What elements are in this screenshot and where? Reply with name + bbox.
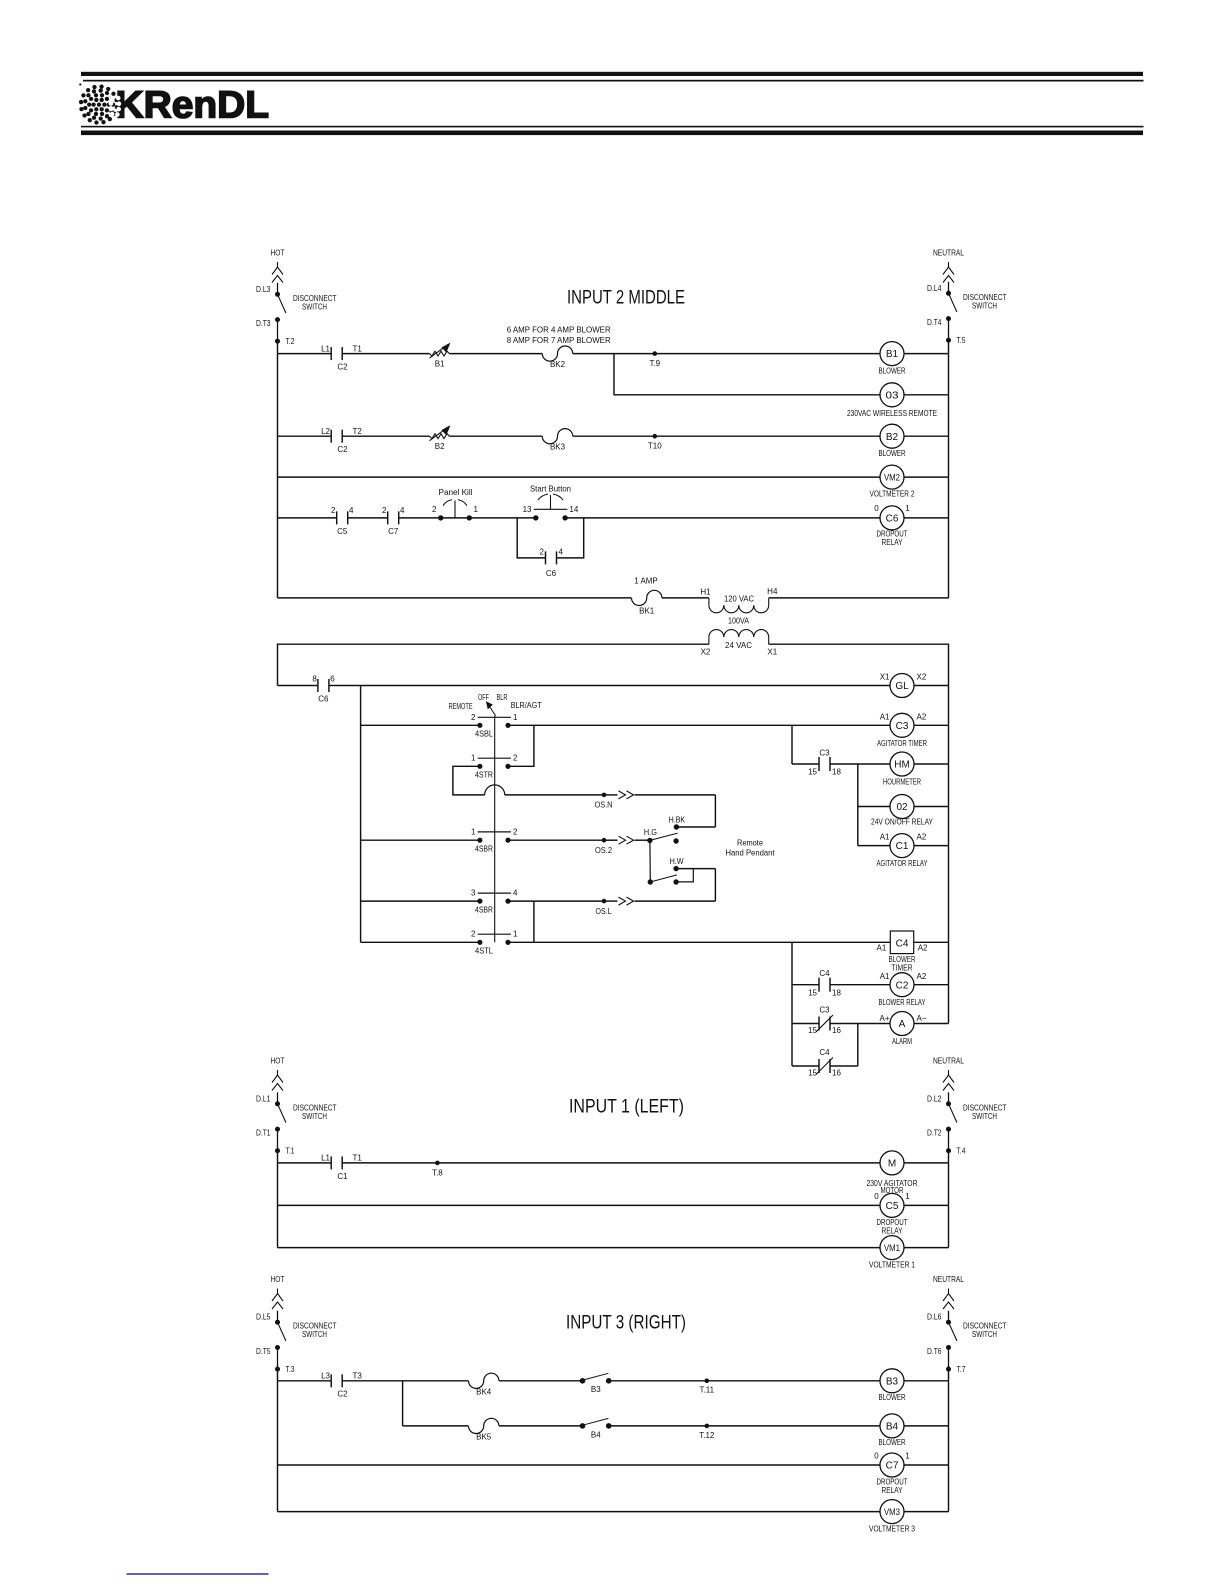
svg-text:BK2: BK2	[550, 360, 566, 369]
wire O2 rung	[858, 806, 890, 808]
svg-text:D.T5: D.T5	[256, 1347, 271, 1356]
wire B3 rung	[278, 1380, 882, 1382]
contact C2 (L2-T2) rung2	[321, 427, 362, 454]
svg-text:OS.2: OS.2	[595, 846, 613, 855]
svg-text:2: 2	[540, 548, 545, 557]
relay 0.3 230VAC wireless remote	[847, 383, 937, 418]
timer C4 blower timer	[877, 931, 929, 973]
svg-text:B2: B2	[435, 442, 445, 451]
svg-text:VOLTMETER 1: VOLTMETER 1	[869, 1260, 915, 1269]
wire HM drop rail	[857, 764, 859, 846]
wire 4SBR rung	[361, 839, 480, 841]
left rail (input 1)	[277, 1151, 279, 1248]
svg-text:M: M	[888, 1159, 896, 1170]
svg-text:SWITCH: SWITCH	[972, 1112, 997, 1121]
svg-text:VM1: VM1	[884, 1243, 900, 1254]
svg-text:15: 15	[808, 988, 817, 997]
svg-text:B1: B1	[435, 360, 445, 369]
note 6/8 AMP blower fusing	[507, 326, 611, 346]
svg-text:3: 3	[471, 889, 476, 898]
svg-text:4: 4	[559, 548, 564, 557]
wire C7 rung	[278, 1464, 882, 1466]
rotary contact 4SBL (2-1)	[471, 713, 518, 739]
wire rung1	[278, 353, 881, 355]
svg-text:D.L5: D.L5	[256, 1313, 271, 1322]
wire C5 to right rail	[904, 1204, 949, 1206]
blower motor B3	[879, 1369, 906, 1402]
svg-text:D.L4: D.L4	[927, 284, 942, 293]
disconnect switch D.L3/D.T3 with nodes T.2	[256, 283, 337, 346]
svg-text:AGITATOR TIMER: AGITATOR TIMER	[877, 739, 927, 748]
node NEUTRAL (input 2)	[933, 248, 964, 283]
svg-text:1: 1	[471, 827, 476, 836]
disconnect switch D.L1/D.T1 with node T.1	[256, 1092, 337, 1155]
svg-text:T1: T1	[353, 344, 363, 353]
wire A to right rail	[914, 1023, 949, 1025]
svg-text:BLOWER: BLOWER	[889, 955, 916, 964]
voltmeter VM1	[869, 1236, 915, 1270]
svg-text:D.T6: D.T6	[927, 1347, 942, 1356]
Krendl logo dotted globe	[79, 83, 119, 124]
svg-text:T.1: T.1	[286, 1147, 295, 1156]
svg-text:RELAY: RELAY	[882, 1226, 904, 1235]
svg-text:D.L3: D.L3	[256, 285, 271, 294]
svg-text:GL: GL	[895, 681, 909, 692]
wire rung2	[278, 435, 881, 437]
svg-text:INPUT 1 (LEFT): INPUT 1 (LEFT)	[569, 1096, 684, 1118]
svg-text:C1: C1	[896, 841, 909, 852]
svg-text:4STR: 4STR	[475, 771, 493, 780]
svg-text:T.5: T.5	[957, 336, 966, 345]
wire VM2 to right rail	[904, 476, 949, 478]
svg-text:BLR: BLR	[497, 693, 508, 702]
switch remote hand pendant (H.G/H.BK/H.W)	[644, 795, 775, 901]
breaker BK3	[542, 429, 572, 452]
wire C1 to right rail	[914, 845, 949, 847]
svg-text:B1: B1	[886, 349, 899, 360]
svg-text:D.T4: D.T4	[927, 318, 942, 327]
svg-text:T1: T1	[353, 1154, 363, 1163]
wire C6 coil to right rail	[904, 517, 949, 519]
svg-text:A2: A2	[918, 944, 928, 953]
Krendl logo white dots over K	[109, 96, 122, 117]
svg-text:C3: C3	[819, 748, 830, 757]
wire C2 to right rail	[914, 984, 949, 986]
svg-text:SWITCH: SWITCH	[972, 1330, 997, 1339]
svg-text:A2: A2	[917, 713, 927, 722]
contact C3 (15-18)	[808, 748, 841, 776]
svg-text:C4: C4	[819, 969, 830, 978]
relay coil C7 dropout relay	[874, 1451, 910, 1495]
svg-text:C2: C2	[337, 1390, 348, 1399]
svg-text:T.8: T.8	[432, 1168, 443, 1177]
disconnect switch D.L2/D.T2 with node T.4	[927, 1092, 1007, 1155]
svg-text:C5: C5	[886, 1201, 899, 1212]
svg-text:BLR/AGT: BLR/AGT	[511, 701, 542, 710]
svg-text:H4: H4	[767, 587, 778, 596]
rotary contact 4STL (2-1)	[471, 930, 518, 956]
title INPUT 1 (LEFT)	[569, 1096, 684, 1118]
node HOT (input 2)	[271, 248, 285, 283]
disconnect switch D.L6/D.T6 with node T.7	[927, 1311, 1007, 1374]
svg-text:HOT: HOT	[271, 248, 285, 258]
svg-text:BK5: BK5	[476, 1432, 492, 1441]
wire C6 seal-in branch	[517, 518, 584, 558]
svg-text:SWITCH: SWITCH	[302, 302, 327, 311]
svg-text:X1: X1	[767, 648, 777, 657]
svg-text:24V ON/OFF RELAY: 24V ON/OFF RELAY	[871, 818, 934, 827]
inner rail A	[360, 686, 362, 943]
rotary contact 4SBR (3-4)	[471, 889, 518, 915]
svg-text:1: 1	[471, 754, 476, 763]
blower motor B1	[879, 342, 906, 376]
svg-text:KRenDL: KRenDL	[116, 85, 270, 127]
svg-text:C6: C6	[886, 514, 899, 525]
svg-text:BLOWER: BLOWER	[879, 1393, 906, 1402]
svg-text:RELAY: RELAY	[882, 538, 904, 547]
relay coil C1 agitator relay	[877, 833, 929, 868]
svg-text:B4: B4	[886, 1422, 899, 1433]
wire HM rung	[792, 763, 890, 765]
svg-text:C5: C5	[337, 527, 348, 536]
svg-text:NEUTRAL: NEUTRAL	[933, 1056, 964, 1066]
svg-text:Hand Pendant: Hand Pendant	[726, 849, 776, 858]
svg-text:VOLTMETER 3: VOLTMETER 3	[869, 1524, 915, 1533]
svg-text:4: 4	[400, 506, 405, 515]
svg-text:120 VAC: 120 VAC	[724, 594, 754, 603]
voltmeter VM3	[869, 1500, 915, 1534]
wire 4SBR2 rung	[361, 900, 480, 902]
svg-text:8 AMP FOR 7 AMP BLOWER: 8 AMP FOR 7 AMP BLOWER	[507, 336, 611, 345]
timer coil C3 agitator timer	[877, 713, 927, 749]
svg-text:C6: C6	[546, 569, 557, 578]
svg-text:A1: A1	[880, 833, 890, 842]
contact C6 (8-6)	[312, 675, 335, 704]
svg-text:4: 4	[513, 889, 518, 898]
wire OS.L to 4STL link	[533, 901, 535, 942]
wire B4 rung	[403, 1425, 881, 1427]
svg-text:INPUT 2 MIDDLE: INPUT 2 MIDDLE	[567, 287, 685, 309]
svg-text:L1: L1	[321, 344, 330, 353]
svg-text:230VAC WIRELESS REMOTE: 230VAC WIRELESS REMOTE	[847, 409, 937, 418]
svg-text:SWITCH: SWITCH	[302, 1330, 327, 1339]
wire O2 to right rail	[914, 806, 949, 808]
svg-text:C3: C3	[896, 721, 909, 732]
svg-text:OS.N: OS.N	[595, 800, 613, 809]
rheostat B2	[430, 425, 451, 451]
wire 4STL rung	[361, 941, 891, 943]
contact C5 (2-4)	[331, 506, 354, 536]
svg-text:HOT: HOT	[271, 1056, 285, 1066]
alarm A	[879, 1012, 926, 1047]
title INPUT 3 (RIGHT)	[566, 1312, 686, 1334]
wire OS.L to pendant	[508, 897, 715, 916]
svg-text:A2: A2	[917, 972, 927, 981]
left rail (input 3)	[277, 1366, 279, 1512]
svg-text:03: 03	[886, 390, 900, 401]
svg-text:BK4: BK4	[476, 1387, 492, 1396]
svg-text:OS.L: OS.L	[596, 907, 612, 916]
svg-text:1: 1	[474, 505, 479, 514]
svg-text:24 VAC: 24 VAC	[725, 641, 752, 650]
pushbutton Panel Kill (NC)	[432, 488, 478, 521]
svg-text:TIMER: TIMER	[892, 964, 913, 973]
wire VM2 rung	[278, 476, 881, 478]
blower motor B2	[879, 424, 906, 458]
svg-text:0: 0	[874, 504, 879, 513]
svg-text:VM3: VM3	[884, 1507, 900, 1518]
transformer 120VAC:24VAC 100VA	[700, 587, 778, 657]
svg-text:C4: C4	[819, 1048, 830, 1057]
svg-text:HOURMETER: HOURMETER	[883, 777, 921, 786]
svg-text:4: 4	[349, 506, 354, 515]
svg-text:RELAY: RELAY	[882, 1486, 904, 1495]
relay coil C6 dropout relay	[874, 504, 910, 547]
wire B3 to right rail	[904, 1380, 949, 1382]
svg-text:HM: HM	[894, 760, 910, 771]
svg-text:BLOWER: BLOWER	[879, 449, 906, 458]
breaker BK4	[469, 1373, 499, 1396]
title INPUT 2 MIDDLE	[567, 287, 685, 309]
disconnect switch D.L4/D.T4 with node T.5	[927, 282, 1007, 345]
motor M 230V agitator	[867, 1151, 918, 1195]
svg-text:D.T3: D.T3	[256, 319, 271, 328]
pushbutton Start Button (NO)	[523, 485, 579, 521]
wire 4SBL rung	[361, 724, 890, 726]
svg-text:2: 2	[432, 505, 437, 514]
node T.8	[432, 1161, 443, 1178]
contact C2 (L3-T3)	[321, 1372, 362, 1399]
svg-text:A2: A2	[917, 833, 927, 842]
blower motor B4	[879, 1414, 906, 1447]
svg-text:4STL: 4STL	[475, 947, 494, 956]
contact C6 (2-4) seal-in	[540, 548, 564, 579]
svg-text:BK3: BK3	[550, 443, 566, 452]
rheostat B1	[430, 343, 451, 369]
wire VM1 rung	[278, 1247, 881, 1249]
svg-text:4SBR: 4SBR	[475, 845, 493, 854]
svg-text:6 AMP FOR 4 AMP BLOWER: 6 AMP FOR 4 AMP BLOWER	[507, 326, 611, 335]
svg-text:SWITCH: SWITCH	[972, 301, 997, 310]
hourmeter HM	[883, 752, 921, 786]
rotary contact 4STR (1-2)	[471, 754, 518, 780]
svg-text:15: 15	[808, 1069, 817, 1078]
svg-text:C7: C7	[388, 527, 399, 536]
header bottom thick rule	[81, 131, 1143, 136]
svg-text:AGITATOR RELAY: AGITATOR RELAY	[877, 859, 929, 868]
node NEUTRAL (input 1)	[933, 1056, 964, 1091]
node NEUTRAL (input 3)	[933, 1274, 964, 1309]
svg-text:6: 6	[330, 675, 335, 684]
wire 24V secondary to right rail	[769, 644, 949, 1023]
breaker BK2	[542, 346, 572, 369]
disconnect switch D.L5/D.T5 with node T.3	[256, 1311, 337, 1374]
wire VM3 rung	[278, 1511, 882, 1513]
svg-text:X2: X2	[701, 648, 711, 657]
wire alarm rung	[792, 1023, 890, 1025]
svg-text:OFF: OFF	[478, 693, 489, 702]
wire C6 rung	[278, 517, 881, 519]
wire C4 rung drop rail	[791, 942, 793, 1066]
svg-text:1: 1	[513, 713, 518, 722]
svg-text:B4: B4	[591, 1430, 601, 1439]
svg-text:HOT: HOT	[271, 1274, 285, 1284]
svg-text:ALARM: ALARM	[892, 1037, 912, 1046]
wire 24V secondary to left rail	[278, 644, 709, 685]
svg-text:BLOWER: BLOWER	[879, 1438, 906, 1447]
svg-text:1: 1	[513, 930, 518, 939]
node T.12	[699, 1424, 715, 1440]
wire B4 to right rail	[904, 1425, 949, 1427]
svg-text:8: 8	[312, 675, 317, 684]
svg-text:T.12: T.12	[699, 1431, 715, 1440]
svg-text:1: 1	[905, 1451, 910, 1460]
wire C7 to right rail	[904, 1464, 949, 1466]
voltmeter VM2	[870, 465, 915, 499]
svg-text:L2: L2	[321, 427, 330, 436]
svg-text:4SBL: 4SBL	[475, 730, 493, 739]
svg-text:D.L1: D.L1	[256, 1094, 271, 1103]
svg-text:X1: X1	[880, 673, 890, 682]
svg-text:VM2: VM2	[884, 473, 900, 484]
header bottom thin rule	[81, 126, 1144, 128]
svg-text:H1: H1	[700, 588, 711, 597]
svg-text:C1: C1	[337, 1172, 348, 1181]
contact C7 (2-4)	[382, 506, 405, 536]
svg-text:D.L2: D.L2	[927, 1094, 942, 1103]
wire HM to right rail	[914, 763, 949, 765]
Krendl logo wordmark	[116, 85, 270, 127]
node T10	[648, 434, 662, 451]
svg-text:REMOTE: REMOTE	[449, 702, 473, 711]
svg-text:0: 0	[874, 1192, 879, 1201]
svg-text:14: 14	[569, 505, 578, 514]
fuse BK1 1 AMP	[632, 576, 662, 615]
svg-text:4SBR: 4SBR	[475, 905, 493, 914]
wire C2 rung	[792, 984, 890, 986]
svg-text:BLOWER: BLOWER	[879, 367, 906, 376]
right rail (input 2, 230V)	[948, 340, 950, 598]
svg-text:VOLTMETER 2: VOLTMETER 2	[870, 490, 915, 499]
svg-text:H.BK: H.BK	[669, 815, 686, 824]
wire 4SBL to 4STR link	[508, 725, 534, 766]
svg-text:D.L6: D.L6	[927, 1313, 942, 1322]
contact C4 (15-16) NC	[808, 1048, 841, 1078]
wire GL rung	[278, 685, 891, 687]
svg-text:2: 2	[513, 754, 518, 763]
svg-text:Remote: Remote	[737, 838, 764, 847]
svg-text:T.11: T.11	[700, 1386, 715, 1395]
svg-text:X2: X2	[917, 673, 927, 682]
svg-text:Panel Kill: Panel Kill	[439, 488, 473, 497]
svg-text:2: 2	[471, 930, 476, 939]
breaker BK5	[469, 1418, 499, 1441]
wire B2 to right rail	[904, 435, 949, 437]
svg-text:C2: C2	[337, 363, 348, 372]
svg-text:16: 16	[832, 1069, 841, 1078]
svg-text:B3: B3	[591, 1385, 601, 1394]
wire branch to wireless remote	[614, 354, 880, 395]
left rail (input 2, 230V)	[277, 341, 279, 598]
svg-text:H.W: H.W	[670, 857, 684, 866]
wire GL to right rail	[914, 685, 949, 687]
svg-text:2: 2	[331, 506, 336, 515]
wire OS.N to pendant	[485, 785, 716, 809]
svg-text:15: 15	[808, 1026, 817, 1035]
svg-text:INPUT 3 (RIGHT): INPUT 3 (RIGHT)	[566, 1312, 686, 1334]
wire C3 rung drop	[791, 725, 793, 764]
svg-text:T3: T3	[353, 1372, 363, 1381]
node T.11	[700, 1379, 715, 1395]
svg-text:BK1: BK1	[639, 607, 655, 616]
rotary contact 4SBR (1-2)	[471, 827, 518, 853]
wire C4 to right rail	[914, 941, 949, 943]
svg-text:A: A	[899, 1019, 906, 1030]
svg-text:1: 1	[905, 1192, 910, 1201]
svg-text:15: 15	[808, 768, 817, 777]
header top thin rule	[83, 80, 1144, 82]
wire C5 rung	[278, 1204, 881, 1206]
svg-text:C2: C2	[896, 980, 909, 991]
header top thick rule	[81, 72, 1143, 76]
svg-text:2: 2	[471, 713, 476, 722]
relay 02 24V on/off	[871, 795, 934, 827]
wire OS.2 to pendant	[508, 836, 650, 855]
svg-text:SWITCH: SWITCH	[302, 1112, 327, 1121]
wire M rung	[278, 1162, 881, 1164]
svg-text:T10: T10	[648, 442, 662, 451]
svg-text:T.3: T.3	[286, 1365, 295, 1374]
svg-text:D.T2: D.T2	[927, 1129, 942, 1138]
svg-text:A−: A−	[917, 1014, 927, 1023]
wire 0.3 to right rail	[904, 394, 949, 396]
svg-text:100VA: 100VA	[728, 616, 750, 625]
contact C3 (15-16) NC	[808, 1006, 841, 1036]
node HOT (input 3)	[271, 1274, 285, 1309]
contact C1 (L1-T1)	[321, 1154, 362, 1181]
svg-text:A1: A1	[880, 713, 890, 722]
svg-text:C6: C6	[318, 695, 329, 704]
switch B4	[580, 1418, 612, 1439]
wire M to right rail	[904, 1162, 949, 1164]
contact C2 (L1-T1) rung1	[321, 344, 362, 371]
svg-text:18: 18	[832, 768, 841, 777]
rotary selector shaft	[449, 693, 542, 942]
wire BK5 branch drop	[402, 1381, 404, 1426]
wire 4STR left drop to OS.N	[453, 766, 485, 795]
svg-text:C3: C3	[819, 1006, 830, 1015]
svg-text:T.4: T.4	[957, 1147, 966, 1156]
pilot light GL	[880, 673, 927, 698]
svg-text:B3: B3	[886, 1376, 899, 1387]
svg-text:NEUTRAL: NEUTRAL	[933, 248, 964, 258]
svg-text:02: 02	[896, 802, 908, 813]
svg-text:BLOWER RELAY: BLOWER RELAY	[879, 998, 926, 1007]
footer link underline	[127, 1573, 269, 1575]
svg-text:T.2: T.2	[286, 337, 295, 346]
svg-text:D.T1: D.T1	[256, 1129, 271, 1138]
relay coil C5 dropout relay	[874, 1192, 910, 1236]
svg-text:L1: L1	[321, 1154, 330, 1163]
svg-text:2: 2	[513, 827, 518, 836]
node HOT (input 1)	[271, 1056, 285, 1091]
svg-text:H.G: H.G	[644, 828, 657, 837]
wire B1 to right rail	[904, 353, 949, 355]
svg-text:B2: B2	[886, 432, 899, 443]
svg-text:C2: C2	[337, 445, 348, 454]
wire C3 to right rail	[914, 724, 949, 726]
right rail (input 1)	[948, 1151, 950, 1248]
